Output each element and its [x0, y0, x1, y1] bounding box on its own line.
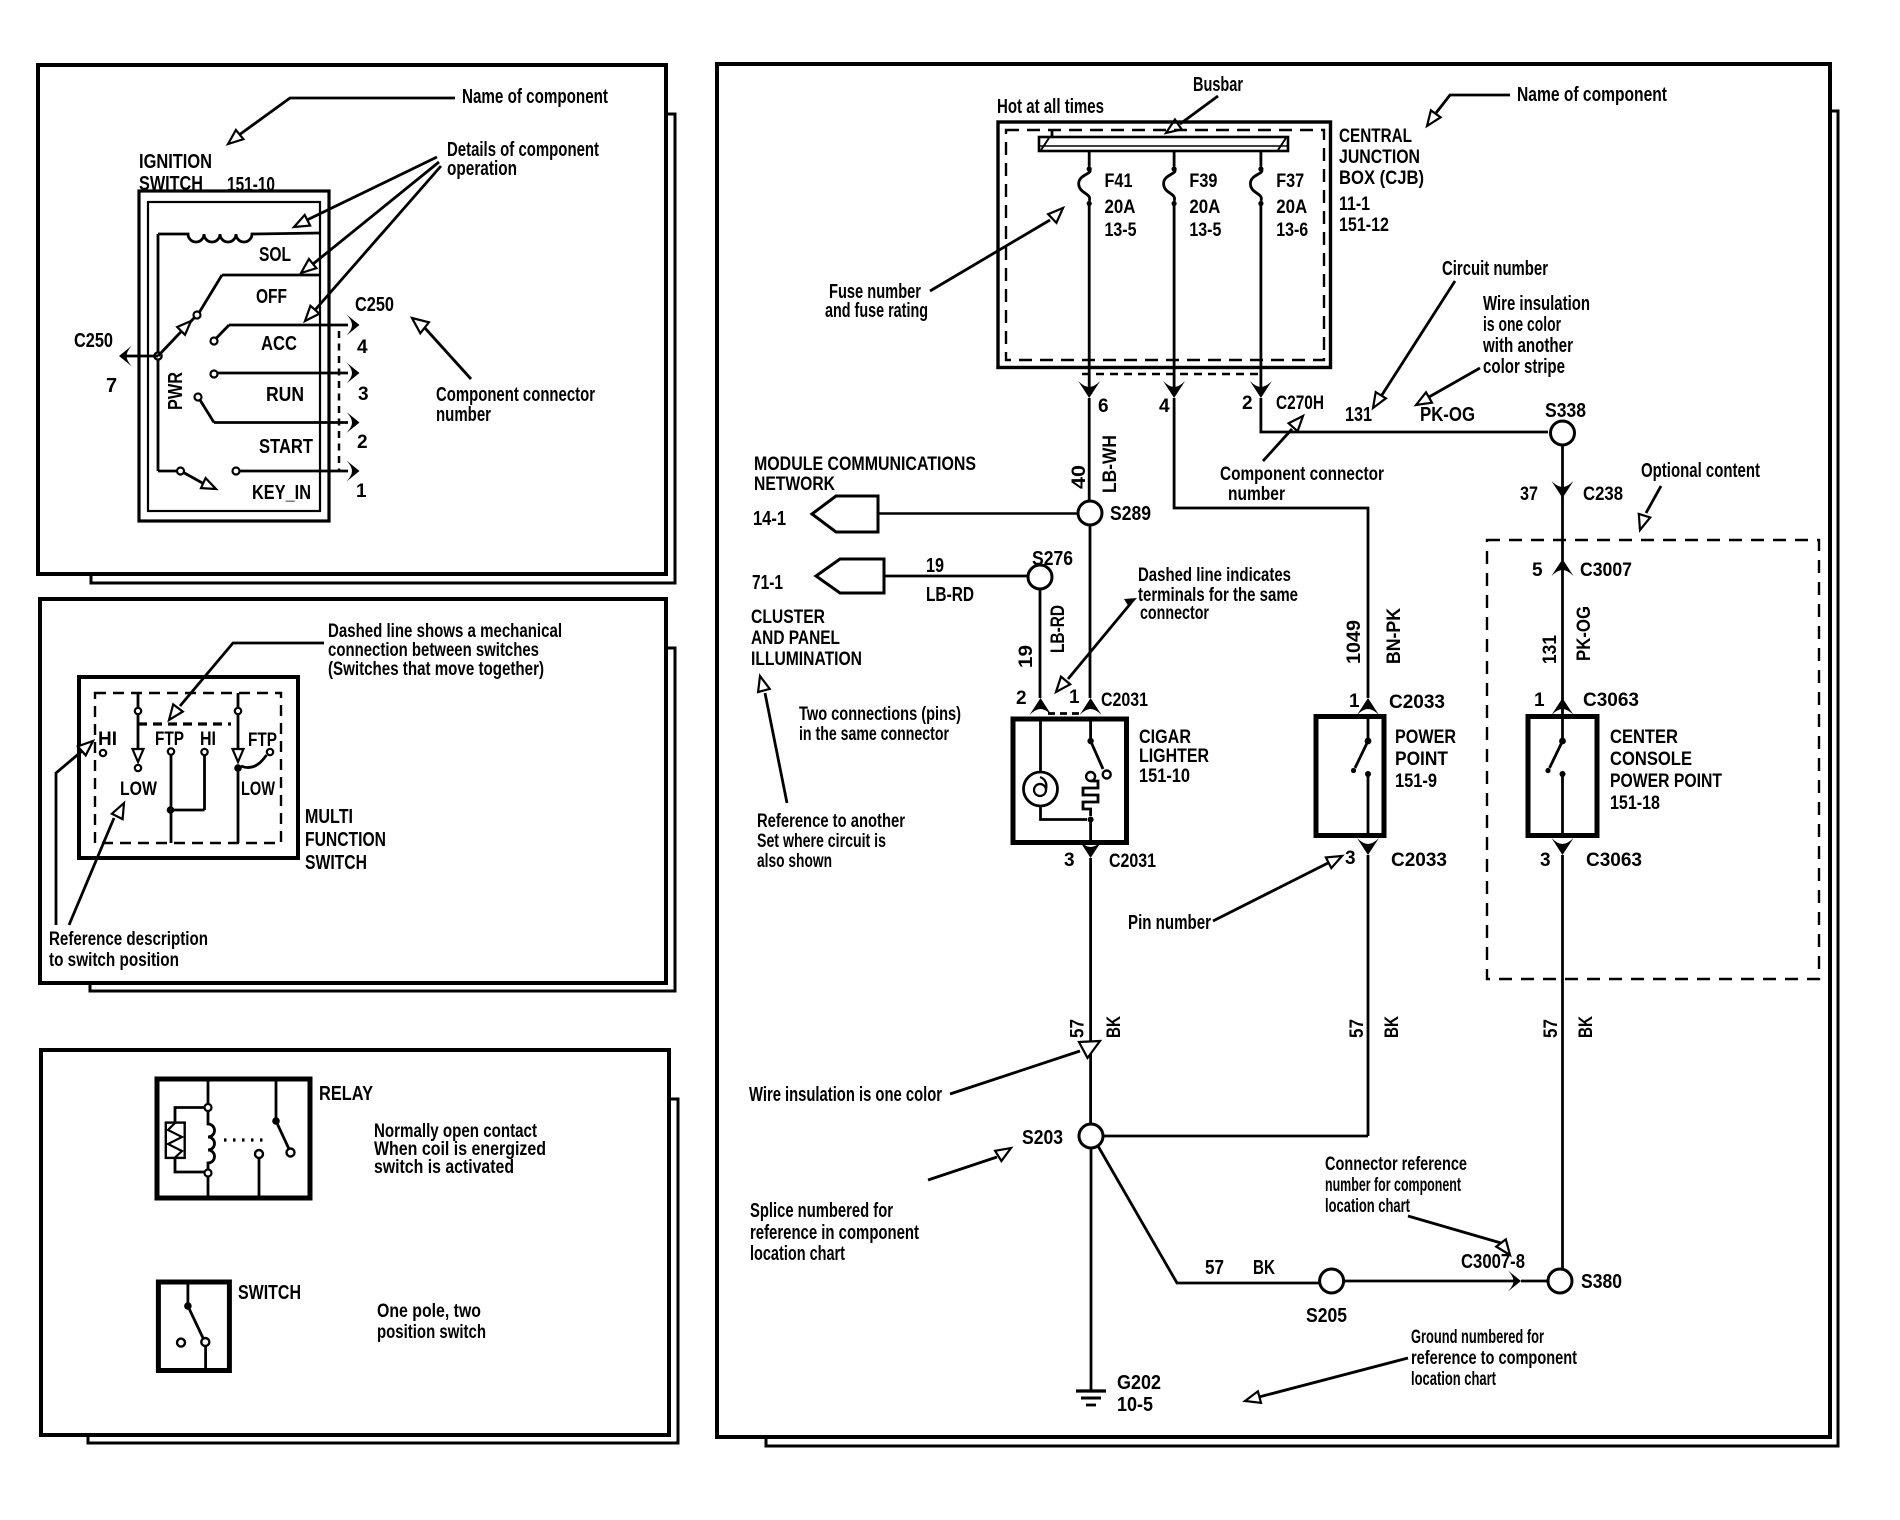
label: C3063 (bottom) [1586, 850, 1642, 871]
label: pin 3 (C2031) [1064, 850, 1075, 871]
label: BK (bottom run) [1253, 1257, 1275, 1279]
svg-text:and fuse rating: and fuse rating [825, 300, 928, 322]
svg-text:Connector reference: Connector reference [1325, 1154, 1467, 1175]
svg-text:Busbar: Busbar [1193, 74, 1243, 96]
connector arrow C2033 pin 1 [1357, 698, 1379, 715]
label: Name of component (left box) [462, 86, 608, 108]
center console power point box [1528, 717, 1597, 836]
wire: cigar lighter ground 57 BK [1089, 858, 1092, 1124]
wire: S205 to S380 with C3007-8 [1344, 1271, 1548, 1292]
svg-text:ILLUMINATION: ILLUMINATION [751, 649, 862, 670]
svg-text:10-5: 10-5 [1117, 1394, 1153, 1416]
svg-text:(Switches that move together): (Switches that move together) [328, 659, 544, 680]
label: pin 3 [358, 384, 369, 405]
label: Pin number [1128, 912, 1211, 934]
label: C2031 (top) [1101, 690, 1148, 711]
wire: fuse F39 output to power point [1174, 398, 1368, 698]
label: C3007 [1580, 560, 1632, 581]
svg-text:operation: operation [447, 158, 517, 180]
svg-text:location chart: location chart [750, 1243, 845, 1265]
label: LB-WH (rotated) [1100, 435, 1121, 493]
label: POWER POINT 151-9 [1395, 727, 1456, 792]
label: S338 [1545, 400, 1586, 422]
label: Dashed line indicates terminals for the same connector [1138, 565, 1298, 624]
svg-text:CENTRAL: CENTRAL [1339, 126, 1412, 147]
label: HI (middle) [200, 729, 216, 750]
svg-text:Ground numbered for: Ground numbered for [1411, 1327, 1544, 1348]
label: LB-RD [926, 584, 974, 606]
leader arrow to C270H [1263, 416, 1303, 461]
svg-text:LB-RD: LB-RD [926, 584, 974, 606]
connector arrow C250 pin 7 (left) [119, 346, 132, 367]
leader arrow to PK-OG [1416, 368, 1480, 405]
switch column 3: movable arm to FTP [233, 693, 274, 843]
label: Details of component operation [447, 139, 599, 180]
leader arrow to pin number 3 [1213, 856, 1342, 921]
label: BK (rotated, console) [1576, 1016, 1597, 1038]
leader arrow to BK wire [950, 1041, 1100, 1094]
svg-text:location chart: location chart [1411, 1369, 1496, 1390]
leader arrow to ground note [1245, 1358, 1408, 1403]
label: OFF [256, 286, 287, 308]
svg-text:LIGHTER: LIGHTER [1139, 746, 1209, 767]
svg-text:C3007-8: C3007-8 [1461, 1251, 1525, 1273]
svg-text:2: 2 [1242, 393, 1253, 414]
leader arrow to HI [56, 741, 93, 925]
label: BK (rotated, power point) [1382, 1016, 1403, 1038]
svg-text:OFF: OFF [256, 286, 287, 308]
label: pin 1 (C2033) [1349, 691, 1360, 712]
svg-text:location chart: location chart [1325, 1196, 1410, 1217]
dashed connector line C250 [338, 331, 341, 471]
label: Wire insulation is one color with another color stripe [1482, 293, 1590, 378]
label: S203 [1022, 1127, 1063, 1149]
svg-text:is one color: is one color [1483, 314, 1561, 336]
svg-text:C3063: C3063 [1583, 690, 1639, 711]
svg-text:FUNCTION: FUNCTION [305, 829, 386, 851]
svg-text:C270H: C270H [1276, 393, 1324, 414]
splice S203 [1079, 1124, 1103, 1148]
svg-text:S203: S203 [1022, 1127, 1063, 1149]
label: S289 [1110, 503, 1151, 525]
svg-text:PK-OG: PK-OG [1574, 606, 1595, 661]
leader arrow to fuse [930, 208, 1063, 291]
svg-text:HI: HI [200, 729, 216, 750]
dashed connector line C270H [1082, 373, 1262, 375]
svg-text:11-1: 11-1 [1339, 194, 1370, 215]
svg-text:LOW: LOW [120, 779, 157, 800]
svg-text:20A: 20A [1276, 197, 1307, 218]
label: 1049 (rotated) [1344, 620, 1365, 664]
svg-text:57: 57 [1541, 1019, 1562, 1038]
svg-text:POWER: POWER [1395, 727, 1456, 748]
wire: left vertical PWR bus [157, 234, 160, 471]
wire: fuse F37 output to S338 [1261, 398, 1548, 432]
central junction box (solid) [998, 122, 1331, 368]
svg-text:number: number [436, 404, 491, 426]
label: pin 7 [106, 375, 117, 397]
svg-text:ACC: ACC [261, 333, 297, 355]
leader arrow to C2031 dashed line [1056, 598, 1137, 692]
relay coil branch [205, 1079, 215, 1198]
label: CENTRAL JUNCTION BOX (CJB) [1339, 126, 1424, 236]
frame: bottom-left example box [41, 1050, 678, 1443]
label: C250 (left) [74, 330, 113, 352]
svg-text:reference to component: reference to component [1411, 1348, 1578, 1369]
svg-text:151-10: 151-10 [1139, 766, 1190, 787]
svg-text:1: 1 [1069, 687, 1080, 708]
switch open contact [177, 1339, 185, 1347]
svg-text:KEY_IN: KEY_IN [252, 482, 311, 504]
svg-text:F41: F41 [1105, 171, 1133, 192]
label: KEY_IN [252, 482, 311, 504]
label: PWR (rotated) [165, 372, 187, 410]
switch arm PWR (movable contact) [158, 317, 195, 356]
svg-text:151-9: 151-9 [1395, 771, 1437, 792]
svg-text:20A: 20A [1189, 197, 1220, 218]
frame: right sample circuit box [717, 64, 1838, 1446]
label: LB-RD (rotated) [1048, 605, 1069, 653]
label: Fuse number and fuse rating [825, 281, 928, 322]
leader arrow to busbar [1166, 96, 1218, 133]
svg-text:57: 57 [1205, 1257, 1224, 1279]
connector arrow C2033 pin 3 [1357, 838, 1379, 855]
svg-text:2: 2 [1016, 688, 1027, 709]
svg-text:C250: C250 [355, 294, 394, 316]
svg-text:C3063: C3063 [1586, 850, 1642, 871]
switch column 1: feed and movable arm [133, 694, 144, 771]
svg-text:C2033: C2033 [1389, 692, 1445, 713]
svg-text:Optional content: Optional content [1641, 460, 1760, 482]
busbar [1039, 130, 1288, 151]
ignition switch component box [139, 191, 329, 521]
svg-text:POWER POINT: POWER POINT [1610, 771, 1722, 792]
switch arm KEY_IN [184, 473, 217, 490]
svg-text:57: 57 [1347, 1019, 1368, 1038]
wire: fuse F41 output LB-WH [1088, 398, 1091, 501]
svg-text:1: 1 [1349, 691, 1360, 712]
leader arrow to ignition switch name [228, 98, 455, 144]
contact: ACC terminal [211, 325, 230, 345]
svg-text:FTP: FTP [248, 730, 277, 751]
label: C238 [1583, 484, 1623, 505]
svg-text:CIGAR: CIGAR [1139, 727, 1191, 748]
svg-text:2: 2 [357, 432, 368, 453]
label: MULTI FUNCTION SWITCH [305, 806, 386, 874]
svg-text:20A: 20A [1105, 197, 1136, 218]
power point switch [1351, 717, 1372, 836]
svg-text:with another: with another [1482, 335, 1573, 357]
svg-text:CLUSTER: CLUSTER [751, 607, 825, 628]
svg-text:BOX (CJB): BOX (CJB) [1339, 168, 1424, 189]
wire: S203 diagonal to S205 run [1098, 1146, 1320, 1283]
svg-text:3: 3 [1345, 848, 1356, 869]
svg-text:BK: BK [1576, 1016, 1597, 1038]
frame: top-left example box [38, 65, 675, 583]
svg-text:Dashed line indicates: Dashed line indicates [1138, 565, 1291, 586]
label: BN-PK (rotated) [1384, 608, 1405, 664]
svg-text:6: 6 [1098, 396, 1109, 417]
svg-text:Set where circuit is: Set where circuit is [757, 831, 886, 852]
label: pin 2 [1242, 393, 1253, 414]
label: C2033 (top) [1389, 692, 1445, 713]
leader arrow to C3007-8 [1408, 1216, 1510, 1255]
label: pin 2 (C2031) [1016, 688, 1027, 709]
label: Name of component (right box) [1517, 84, 1667, 106]
svg-text:4: 4 [357, 337, 368, 358]
label: IGNITION SWITCH 151-10 [139, 151, 275, 196]
svg-text:37: 37 [1520, 484, 1538, 505]
svg-text:Reference to another: Reference to another [757, 811, 905, 832]
cigar lighter heating element and contact [1083, 719, 1111, 843]
svg-text:151-18: 151-18 [1610, 793, 1660, 814]
relay resistor (parallel) [166, 1108, 205, 1173]
label: Busbar [1193, 74, 1243, 96]
label: CIGAR LIGHTER 151-10 [1139, 727, 1209, 787]
label: CENTER CONSOLE POWER POINT 151-18 [1610, 727, 1722, 814]
svg-text:BK: BK [1382, 1016, 1403, 1038]
splice S338 [1551, 421, 1575, 445]
svg-text:JUNCTION: JUNCTION [1339, 147, 1420, 168]
label: FTP (right) [248, 730, 277, 751]
svg-text:LB-RD: LB-RD [1048, 605, 1069, 653]
wire: center console ground 57 BK [1561, 855, 1564, 1269]
wire: S289 down to C2031 pin 1 [1089, 525, 1092, 698]
svg-text:1049: 1049 [1344, 620, 1365, 664]
relay mechanical dotted link [224, 1138, 266, 1141]
label: C3063 (top) [1583, 690, 1639, 711]
svg-text:131: 131 [1540, 635, 1561, 664]
label: Component connector number (C270H) [1220, 464, 1384, 505]
contact circle OFF position [194, 275, 223, 319]
svg-text:Name of component: Name of component [462, 86, 608, 108]
dashed switch group box [95, 693, 281, 843]
svg-text:13-6: 13-6 [1276, 220, 1308, 241]
svg-text:color stripe: color stripe [1483, 356, 1565, 378]
svg-text:151-12: 151-12 [1339, 215, 1389, 236]
wire: KEY_IN row to C250 pin 1 [240, 461, 360, 482]
relay stationary contact [255, 1150, 263, 1198]
svg-text:3: 3 [1540, 850, 1551, 871]
label: C270H [1276, 393, 1324, 414]
label: 57 (rotated, console) [1541, 1019, 1562, 1038]
svg-text:HI: HI [98, 729, 117, 750]
label: circuit 19 [926, 555, 944, 577]
svg-text:NETWORK: NETWORK [754, 474, 835, 495]
svg-text:FTP: FTP [155, 729, 184, 750]
svg-text:C3007: C3007 [1580, 560, 1632, 581]
svg-text:19: 19 [926, 555, 944, 577]
label: FTP (left) [155, 729, 184, 750]
svg-text:C238: C238 [1583, 484, 1623, 505]
svg-text:14-1: 14-1 [753, 508, 786, 530]
label: PK-OG (rotated) [1574, 606, 1595, 661]
wire: S203 to ground [1090, 1148, 1093, 1391]
svg-text:13-5: 13-5 [1105, 220, 1137, 241]
svg-text:C2031: C2031 [1109, 851, 1156, 872]
label: PK-OG [1420, 404, 1475, 426]
switch example box [158, 1282, 229, 1371]
svg-text:LOW: LOW [241, 779, 275, 800]
label: 57 (bottom run) [1205, 1257, 1224, 1279]
leader arrow to LOW [69, 803, 124, 925]
label: 71-1 [752, 572, 783, 594]
relay switch arm [272, 1079, 294, 1157]
label: pin 4 [357, 337, 368, 358]
label: circuit 40 (rotated) [1069, 465, 1090, 489]
label: G202 10-5 [1117, 1372, 1161, 1416]
fuse F41 20A [1079, 151, 1137, 391]
splice S289 [1078, 501, 1102, 525]
label: pin 4 [1159, 396, 1170, 417]
svg-text:connector: connector [1140, 603, 1209, 624]
splice S205 [1320, 1269, 1344, 1293]
svg-text:S289: S289 [1110, 503, 1151, 525]
label: START [259, 436, 313, 458]
svg-text:to switch position: to switch position [49, 950, 179, 971]
svg-text:AND PANEL: AND PANEL [751, 628, 840, 649]
label: pin 37 [1520, 484, 1538, 505]
svg-text:7: 7 [106, 375, 117, 397]
svg-text:in the same connector: in the same connector [799, 724, 949, 745]
splice S380 [1548, 1269, 1572, 1293]
connector arrow C3007 [1552, 559, 1574, 576]
svg-text:LB-WH: LB-WH [1100, 435, 1121, 493]
fuse F37 20A [1250, 151, 1308, 391]
wire: S203 to power point branch [1103, 1135, 1368, 1138]
label: pin 1 [356, 481, 367, 502]
label: S276 [1032, 548, 1073, 570]
svg-text:Pin number: Pin number [1128, 912, 1211, 934]
ground G202 [1076, 1391, 1106, 1405]
leader arrow to mechanical dashed line [169, 643, 324, 720]
wire: START row to C250 pin 2 [214, 412, 360, 433]
svg-text:CENTER: CENTER [1610, 727, 1678, 748]
svg-text:1: 1 [356, 481, 367, 502]
label: 14-1 [753, 508, 786, 530]
splice S276 [1028, 565, 1052, 589]
svg-text:C2033: C2033 [1391, 850, 1447, 871]
label: pin 3 (C2033) [1345, 848, 1356, 869]
svg-text:Wire insulation is one color: Wire insulation is one color [749, 1084, 942, 1106]
connector arrow C3063 pin 3 [1552, 838, 1574, 855]
central junction box (dashed) [1006, 130, 1324, 360]
wire: C250 pin 7 to PWR [122, 355, 158, 358]
svg-text:Splice numbered for: Splice numbered for [750, 1200, 893, 1222]
svg-text:connection between switches: connection between switches [328, 640, 539, 661]
label: Reference to another Set [757, 811, 905, 872]
svg-text:Component connector: Component connector [436, 384, 595, 406]
label: Component connector number [436, 384, 595, 426]
svg-text:BN-PK: BN-PK [1384, 608, 1405, 664]
label: relay description [374, 1121, 546, 1178]
svg-text:number for component: number for component [1325, 1175, 1461, 1196]
label: 57 (rotated, cigar) [1068, 1019, 1089, 1038]
svg-text:Reference description: Reference description [49, 929, 208, 950]
contact: START terminal [195, 394, 215, 423]
svg-text:S205: S205 [1306, 1305, 1347, 1327]
svg-text:START: START [259, 436, 313, 458]
node: PWR junction [154, 352, 161, 359]
connector arrows C2031 pins 2,1 [1030, 698, 1102, 715]
svg-text:G202: G202 [1117, 1372, 1161, 1394]
svg-text:40: 40 [1069, 465, 1090, 489]
svg-text:CONSOLE: CONSOLE [1610, 749, 1692, 770]
label: pin 2 [357, 432, 368, 453]
svg-text:13-5: 13-5 [1189, 220, 1221, 241]
leader arrow to S203 [928, 1148, 1011, 1180]
svg-text:19: 19 [1016, 645, 1037, 668]
label: BK (rotated, cigar) [1104, 1016, 1125, 1038]
svg-text:SWITCH: SWITCH [238, 1282, 301, 1304]
svg-text:SOL: SOL [259, 244, 291, 266]
switch arm [184, 1282, 209, 1371]
wire: S276 down to C2031 pin 2 [1039, 589, 1042, 698]
label: pin 5 [1532, 560, 1543, 581]
wire: S289 to reference 14-1 [878, 512, 1078, 514]
label: LOW (right) [241, 779, 275, 800]
leader arrow to C250 [412, 318, 471, 379]
svg-text:BK: BK [1253, 1257, 1275, 1279]
power point box [1316, 717, 1384, 836]
svg-text:F37: F37 [1276, 171, 1304, 192]
frame: middle-left example box [40, 599, 675, 991]
label: Two connections (pins) in the same connector [799, 704, 961, 745]
contact: HI terminal (left) [100, 750, 106, 756]
svg-text:131: 131 [1345, 404, 1372, 426]
label: S380 [1581, 1271, 1622, 1293]
svg-text:One pole, two: One pole, two [377, 1301, 481, 1322]
wire: power point ground 57 BK [1367, 855, 1370, 1136]
label: C250 (right) [355, 294, 394, 316]
contact: KEY_IN pivot [177, 468, 184, 475]
label: C3007-8 [1461, 1251, 1525, 1273]
svg-text:also shown: also shown [757, 851, 832, 872]
svg-text:71-1: 71-1 [752, 572, 783, 594]
connector pin arrows C270H [1078, 381, 1272, 398]
label: Wire insulation is one color [749, 1084, 942, 1106]
off-page reference connector 14-1 [812, 496, 878, 532]
svg-text:Dashed line shows a mechanical: Dashed line shows a mechanical [328, 621, 562, 642]
svg-text:3: 3 [358, 384, 369, 405]
svg-text:5: 5 [1532, 560, 1543, 581]
relay box [157, 1079, 310, 1198]
svg-text:C2031: C2031 [1101, 690, 1148, 711]
contact: RUN terminal [211, 371, 218, 378]
svg-text:57: 57 [1068, 1019, 1089, 1038]
label: circuit 131 [1345, 404, 1372, 426]
label: RUN [266, 384, 304, 406]
multifunction switch box [79, 677, 298, 858]
svg-text:BK: BK [1104, 1016, 1125, 1038]
leader arrow to optional content box [1639, 486, 1661, 530]
label: MODULE COMMUNICATIONS NETWORK [754, 454, 976, 495]
svg-text:IGNITION: IGNITION [139, 151, 212, 173]
svg-text:3: 3 [1064, 850, 1075, 871]
svg-text:RELAY: RELAY [319, 1083, 374, 1105]
label: pin 6 [1098, 396, 1109, 417]
svg-text:S338: S338 [1545, 400, 1586, 422]
svg-text:position switch: position switch [377, 1322, 486, 1343]
connector arrow C2031 pin 3 [1080, 841, 1102, 858]
svg-text:F39: F39 [1189, 171, 1217, 192]
svg-text:4: 4 [1159, 396, 1170, 417]
label: 57 (rotated, power point) [1347, 1019, 1368, 1038]
leader arrow to circuit number 131 [1373, 281, 1455, 408]
contact: KEY_IN terminal [233, 468, 240, 475]
label: 131 (rotated) [1540, 635, 1561, 664]
svg-text:Wire insulation: Wire insulation [1483, 293, 1590, 315]
